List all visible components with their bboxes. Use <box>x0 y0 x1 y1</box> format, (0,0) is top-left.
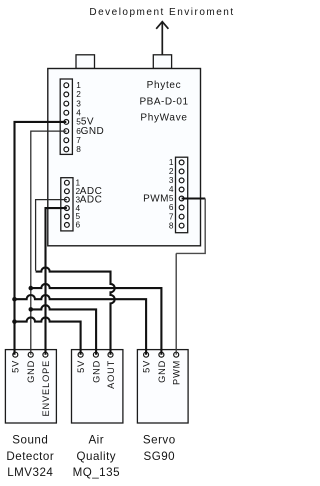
board U1 title text <box>139 80 188 124</box>
connector J3 pin numbers <box>169 157 174 230</box>
svg-text:GND: GND <box>157 360 167 383</box>
net label ADC at J2 pin 3 <box>80 195 102 206</box>
wire: PWM net down to M3 PWM <box>175 253 177 354</box>
junction on GND net (branch to servo) <box>29 286 34 291</box>
svg-text:5V: 5V <box>76 360 86 373</box>
wire: ADC net from J2 pin4 left and down to M1 ENVELOPE <box>46 208 67 355</box>
svg-text:ENVELOPE: ENVELOPE <box>41 360 51 417</box>
svg-text:8: 8 <box>76 144 81 154</box>
module M3 caption Servo SG90 <box>143 434 176 463</box>
svg-text:5V: 5V <box>142 360 152 373</box>
module M1 Sound Detector LMV324 body <box>5 350 56 423</box>
svg-text:Phytec: Phytec <box>147 80 182 91</box>
board U1 Phytec PBA-D-01 PhyWave: top tab 1 <box>76 55 95 69</box>
module M1 pin label ENVELOPE <box>41 360 51 417</box>
svg-text:PWM: PWM <box>172 360 182 385</box>
svg-text:Development Enviroment: Development Enviroment <box>89 7 234 18</box>
connector J3 pins 1-8 <box>179 160 184 228</box>
wire: ADC net from J2 pin3 left and down (thin segment) <box>36 200 67 271</box>
svg-text:SG90: SG90 <box>143 450 175 463</box>
wire: PWM net down outside board and left (grey segment) <box>176 199 205 254</box>
wire: GND net from J1 pin6 left and down to M1 GND <box>31 131 67 355</box>
net label 5V at J1 pin 5 <box>81 116 94 127</box>
module M3 pin label PWM <box>172 360 182 385</box>
net label ADC at J2 pin 2 <box>80 186 102 197</box>
connector J2 pin numbers <box>76 177 81 229</box>
svg-text:ADC: ADC <box>80 195 102 206</box>
svg-text:Quality: Quality <box>77 450 117 463</box>
svg-text:Servo: Servo <box>143 434 176 447</box>
module M2 caption Air Quality MQ_135 <box>73 434 120 480</box>
junction on 5V net (branch to servo) <box>12 297 17 302</box>
module M2 pins (5V, GND, AOUT) <box>78 352 113 357</box>
module M2 Air Quality MQ_135 body <box>72 350 123 423</box>
svg-text:GND: GND <box>26 360 36 383</box>
svg-text:MQ_135: MQ_135 <box>73 466 120 479</box>
module M1 caption Sound Detector LMV324 <box>6 434 54 480</box>
module M2 pin label AOUT <box>106 360 116 389</box>
module M1 pins (5V, GND, ENVELOPE) <box>13 352 48 357</box>
svg-text:Sound: Sound <box>12 434 48 447</box>
wire: 5V branch to M3 5V with hops over GND and ENVELOPE wires <box>15 295 147 355</box>
module M3 Servo SG90 body <box>137 350 188 423</box>
net label GND at J1 pin 6 <box>81 126 105 137</box>
junction on GND net (branch to air quality) <box>29 307 34 312</box>
node: Development Enviroment label <box>89 7 234 18</box>
svg-text:5V: 5V <box>11 360 21 373</box>
svg-text:PBA-D-01: PBA-D-01 <box>139 96 188 107</box>
svg-text:Air: Air <box>88 434 104 447</box>
connector J2 (bottom-left header, pins 1-6) body <box>61 178 73 231</box>
junction on 5V net (branch to air quality) <box>12 319 17 324</box>
module M1 pin label GND <box>26 360 36 383</box>
connector J1 pin numbers <box>76 80 81 154</box>
svg-text:GND: GND <box>91 360 101 383</box>
wire: arrow from board tab up to Development Enviroment <box>156 22 168 56</box>
wire: PWM net from J3 pin5 right (thick segment) <box>182 197 206 199</box>
wire: GND branch to M3 GND with hop over ENVELOPE wire <box>31 284 162 355</box>
wire: 5V net from J1 pin5 left and down to M1 5V <box>15 122 67 355</box>
module M2 pin label GND <box>91 360 101 383</box>
svg-text:6: 6 <box>76 220 81 230</box>
module M3 pins (5V, GND, PWM) <box>144 352 179 357</box>
svg-text:GND: GND <box>81 126 105 137</box>
connector J2 pins 1-6 <box>65 180 70 227</box>
svg-text:LMV324: LMV324 <box>7 466 53 479</box>
svg-text:8: 8 <box>169 220 174 230</box>
wire: 5V branch to M2 5V with hops over GND and ENVELOPE wires <box>15 317 81 354</box>
wire: ADC net horizontal run to M2 AOUT with hop over ENVELOPE wire, down with hops over GND/5V branches <box>36 267 115 354</box>
svg-text:Detector: Detector <box>6 450 54 463</box>
connector J1 (top-left header, pins 1-8) body <box>60 79 72 154</box>
module M3 pin label 5V <box>142 360 152 373</box>
svg-text:AOUT: AOUT <box>106 360 116 389</box>
svg-text:PhyWave: PhyWave <box>140 113 187 124</box>
wire: GND branch to M2 GND with hop over ENVELOPE wire <box>31 305 96 355</box>
module M1 pin label 5V <box>11 360 21 373</box>
connector J3 (right header, pins 1-8) body <box>176 157 188 233</box>
module M3 pin label GND <box>157 360 167 383</box>
board U1: top tab 2 (arrow anchor) <box>153 55 171 69</box>
net label PWM at J3 pin 5 <box>143 193 169 204</box>
module M2 pin label 5V <box>76 360 86 373</box>
svg-text:PWM: PWM <box>143 193 169 204</box>
board U1 body <box>48 69 201 246</box>
connector J1 pins 1-8 <box>64 83 69 152</box>
